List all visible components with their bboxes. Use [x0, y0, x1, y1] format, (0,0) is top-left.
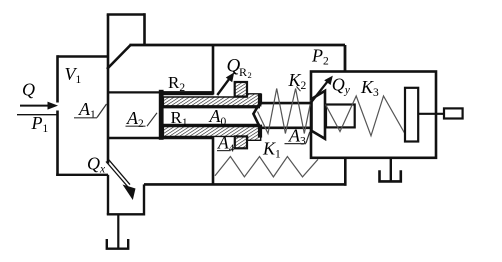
port Qx right wall [143, 184, 145, 215]
spool top collar [235, 82, 247, 97]
orifice R2 thick bar [164, 91, 214, 95]
piston rod [418, 113, 444, 115]
spool bottom collar [235, 136, 247, 148]
divider wall lower [212, 136, 215, 184]
spool bottom wall hatched with right lip [163, 124, 260, 127]
ground cup left [107, 239, 128, 249]
rod bottom line [259, 127, 311, 130]
knob [444, 108, 463, 118]
wire under Q arrow [17, 114, 58, 116]
bore top wall line [163, 106, 260, 109]
divider wall upper [212, 45, 215, 95]
port Qx left wall [107, 175, 109, 215]
poppet cone [312, 91, 326, 139]
spool left cap (black) [159, 90, 164, 140]
svg-text:Q: Q [22, 80, 35, 100]
top box right wall [344, 45, 347, 72]
flow arrow Qx outline shaft [106, 162, 128, 188]
spool end edge top [258, 94, 262, 105]
chamber floor line [108, 137, 213, 139]
piston plate [405, 88, 418, 142]
flow arrow Qx head [123, 185, 136, 201]
flow arrow Qy [310, 81, 328, 104]
spool top wall hatched with right lip [163, 94, 260, 106]
svg-text:2: 2 [248, 70, 252, 80]
body top wall [130, 44, 346, 47]
port Qx bottom wall [107, 213, 144, 215]
spool end edge bottom [258, 125, 262, 138]
flow arrow QR2 [217, 79, 229, 95]
top port chimney [107, 13, 145, 16]
spring retainer box [326, 105, 355, 128]
spring K1 [215, 157, 318, 177]
chamber V1 box [58, 55, 109, 58]
spool end notch chevron [253, 104, 259, 127]
body diagonal corner [107, 45, 131, 69]
spring K2 [258, 89, 312, 134]
support leg [344, 158, 347, 186]
wire chimney left edge / V1 right wall [107, 15, 110, 164]
spring K3 [326, 96, 405, 136]
ground cup right [380, 170, 401, 181]
flow arrow Q [20, 105, 49, 107]
orifice R2 wall line [108, 91, 213, 93]
bottom wall [144, 183, 347, 186]
ground stem right [390, 158, 392, 181]
svg-text:R: R [239, 65, 247, 79]
ground stem left [117, 214, 119, 249]
rod top line [259, 102, 311, 105]
chamber K3 box [311, 72, 436, 158]
